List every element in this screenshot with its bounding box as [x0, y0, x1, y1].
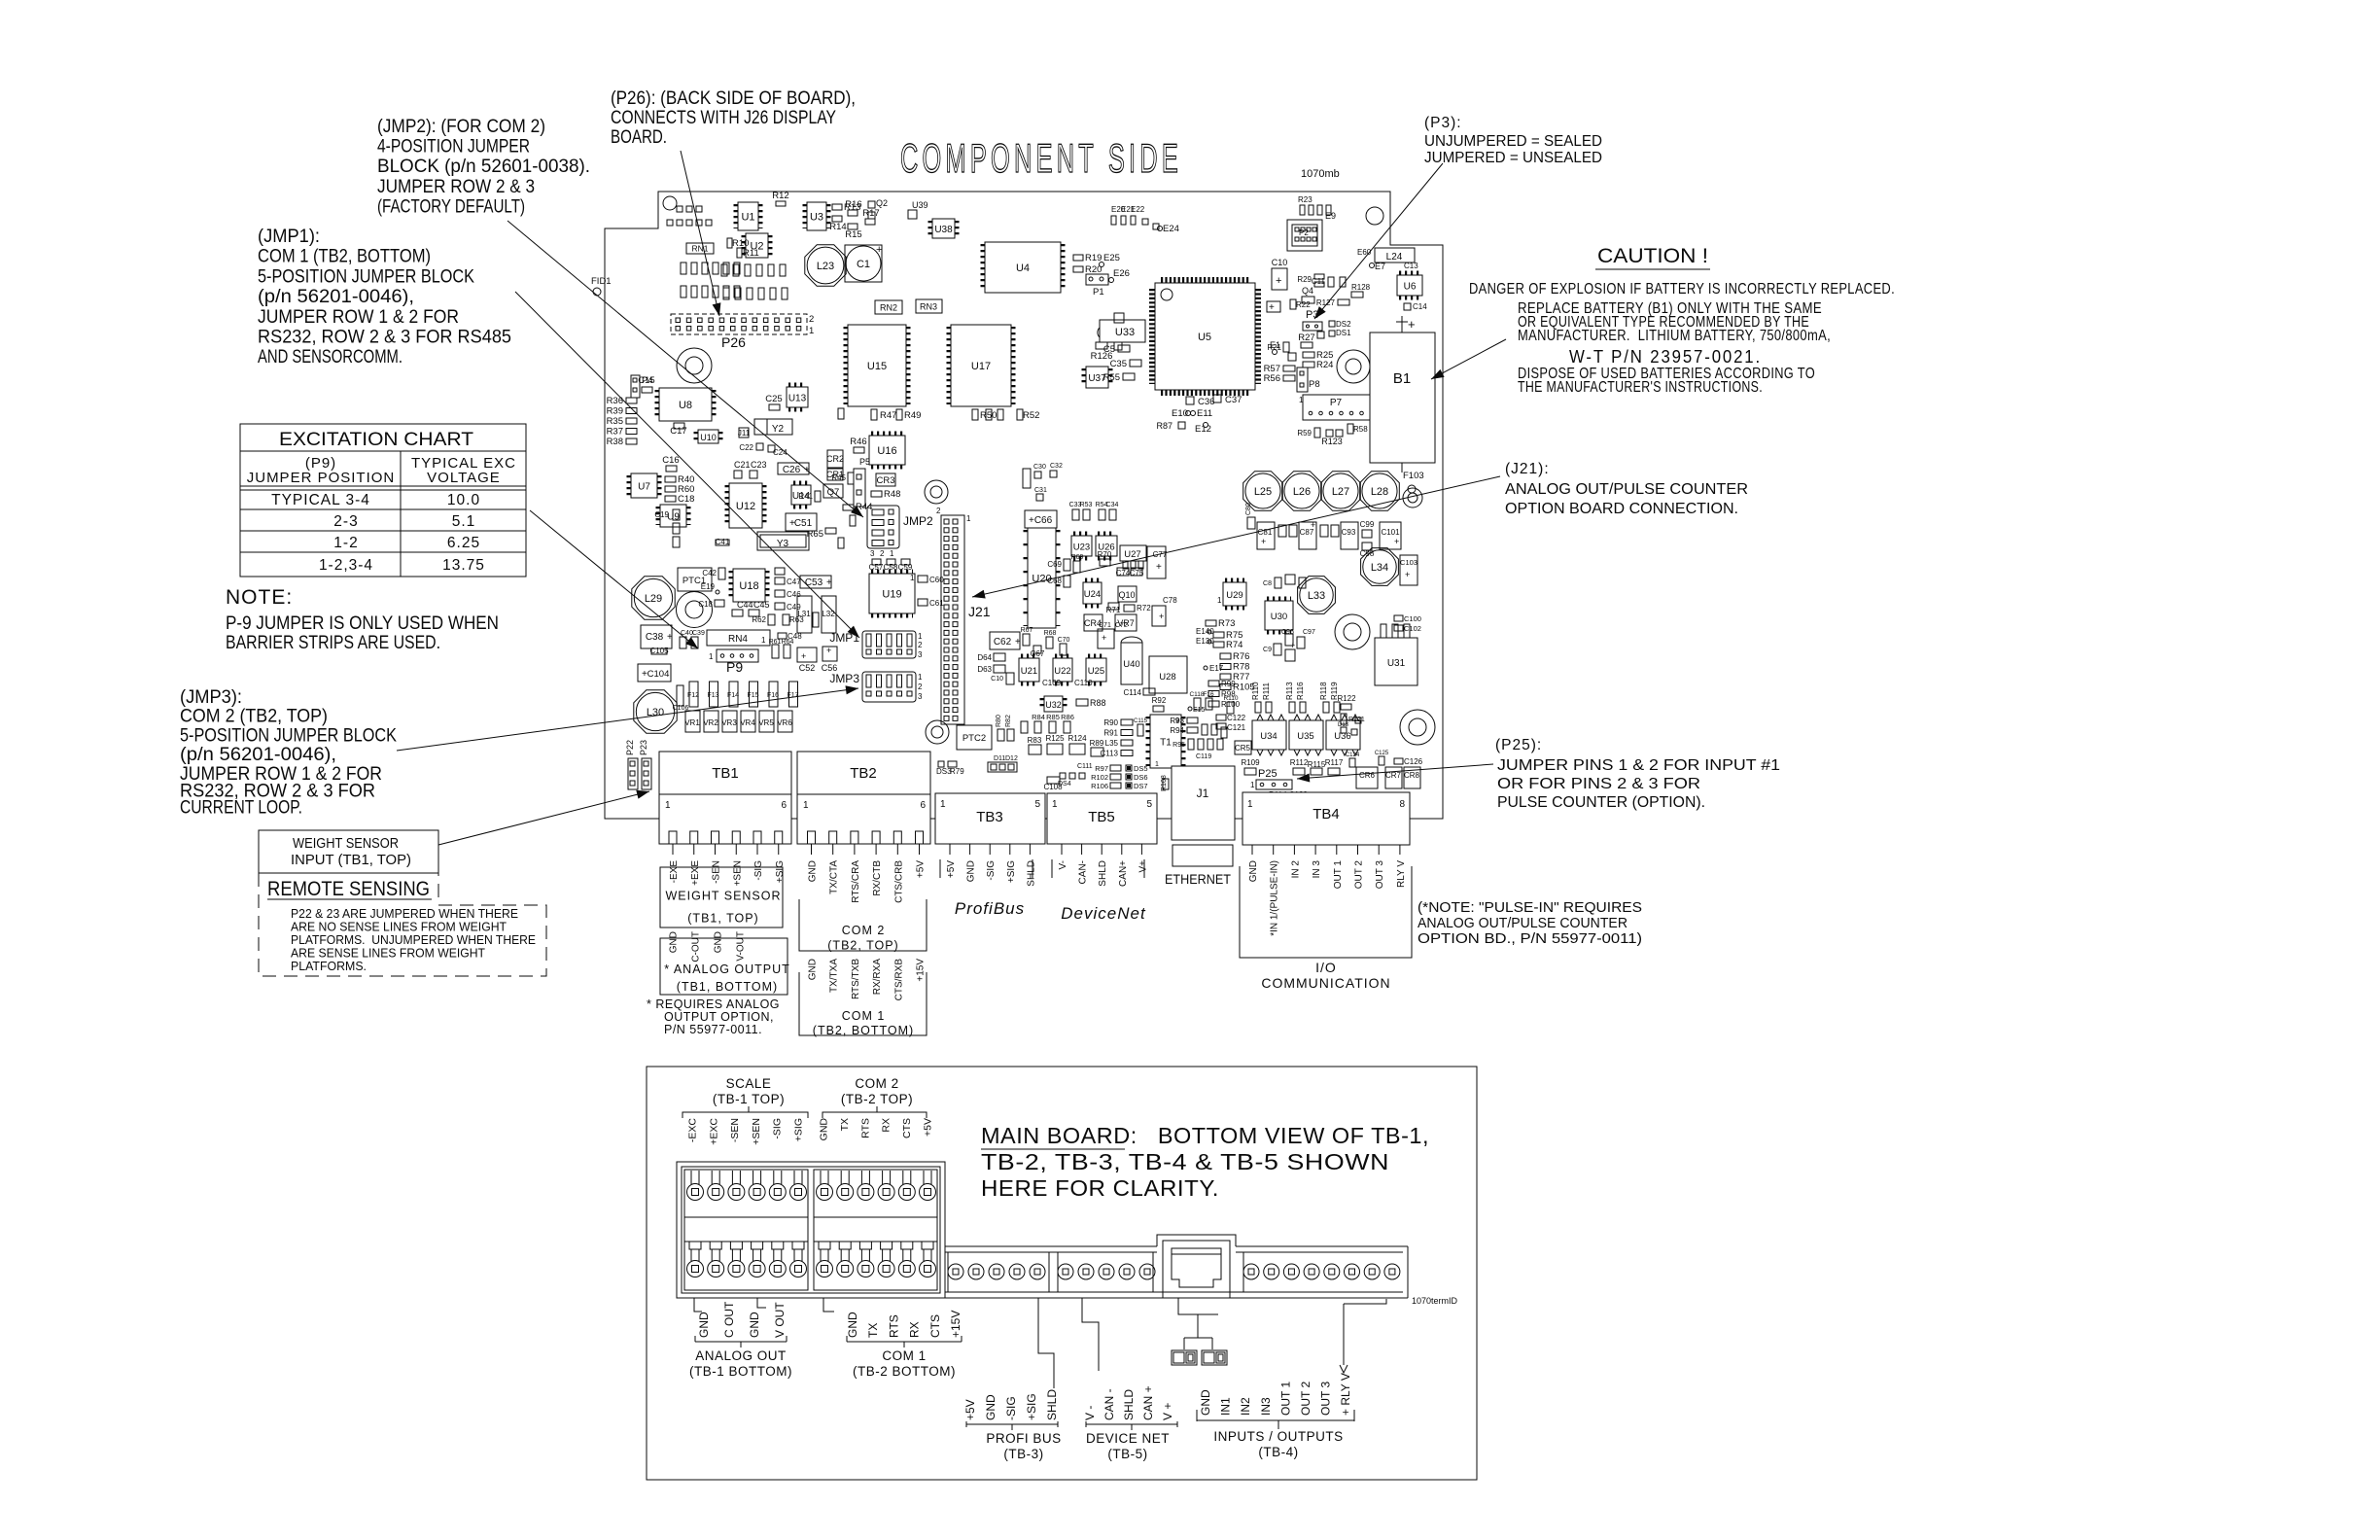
resistors R95 R103 R107 R104 C119	[1188, 739, 1194, 750]
capacitor C114	[1143, 688, 1155, 695]
svg-text:R102: R102	[1091, 773, 1108, 782]
transistor Q10	[1118, 586, 1137, 602]
svg-text:R14: R14	[829, 222, 846, 232]
svg-text:U1: U1	[741, 212, 754, 224]
capacitors C40 C39	[680, 637, 686, 648]
jumper P22	[628, 758, 638, 789]
svg-text:C44: C44	[737, 600, 753, 610]
resistor R48n	[838, 408, 844, 419]
svg-text:R37: R37	[607, 427, 623, 437]
capacitor C41	[716, 540, 729, 545]
svg-text:CTS: CTS	[928, 1314, 942, 1338]
bracket scale	[682, 1106, 808, 1118]
svg-text:E17: E17	[1209, 664, 1224, 673]
IC U3	[807, 202, 826, 230]
svg-text:OUT 2: OUT 2	[1299, 1382, 1312, 1416]
svg-text:TB1: TB1	[712, 765, 739, 782]
svg-text:PULSE COUNTER (OPTION).: PULSE COUNTER (OPTION).	[1497, 794, 1705, 811]
capacitor C53	[800, 576, 831, 588]
svg-text:C23: C23	[751, 460, 767, 470]
svg-text:R97: R97	[1095, 764, 1108, 773]
svg-text:R24: R24	[1316, 360, 1333, 370]
svg-text:F12: F12	[687, 692, 699, 699]
svg-text:ANALOG OUT: ANALOG OUT	[695, 1348, 787, 1363]
svg-text:GND: GND	[984, 1394, 997, 1420]
svg-text:C57: C57	[869, 563, 884, 572]
svg-text:PROFI BUS: PROFI BUS	[986, 1431, 1061, 1446]
leader line P26 annotation to P26	[681, 151, 719, 316]
svg-text:U24: U24	[1084, 589, 1101, 600]
analog output TB1 bottom bracket	[660, 938, 787, 995]
IC U29	[1223, 582, 1246, 606]
svg-text:5.1: 5.1	[452, 513, 476, 530]
svg-text:-EXC: -EXC	[687, 1118, 699, 1143]
IC U18	[733, 569, 765, 602]
svg-text:R86: R86	[1061, 713, 1074, 721]
svg-text:P2: P2	[1299, 228, 1309, 237]
svg-text:IN 3: IN 3	[1312, 860, 1322, 879]
resistor R17	[865, 219, 875, 225]
svg-text:OUT 3: OUT 3	[1319, 1382, 1333, 1416]
com1 wire stems	[823, 1298, 834, 1312]
jumper P4	[631, 375, 640, 398]
svg-text:U17: U17	[971, 361, 991, 372]
svg-text:1: 1	[1155, 761, 1159, 768]
svg-text:TX/CTA: TX/CTA	[829, 860, 840, 894]
svg-text:C51: C51	[794, 518, 813, 529]
IC U25	[1086, 658, 1106, 682]
svg-text:JMP3: JMP3	[829, 672, 859, 685]
svg-text:L28: L28	[1371, 486, 1388, 498]
svg-text:R19: R19	[1085, 253, 1102, 263]
svg-text:R56: R56	[1264, 373, 1280, 384]
jumper block JMP1	[862, 631, 916, 658]
svg-text:R127: R127	[1316, 298, 1336, 307]
svg-text:+: +	[1269, 302, 1275, 313]
inductor L33	[1298, 577, 1336, 614]
svg-text:R58: R58	[1353, 425, 1368, 434]
svg-text:R116: R116	[1296, 682, 1305, 700]
svg-text:-SEN: -SEN	[712, 860, 722, 884]
svg-text:SCALE: SCALE	[726, 1076, 772, 1091]
capacitor C35	[1130, 360, 1141, 367]
svg-text:FID1: FID1	[591, 276, 612, 287]
svg-text:I/O: I/O	[1315, 960, 1337, 975]
svg-text:R70: R70	[1098, 550, 1112, 559]
svg-text:U38: U38	[934, 225, 953, 235]
svg-text:13.75: 13.75	[442, 557, 485, 574]
svg-text:U34: U34	[1260, 731, 1277, 742]
resistor R67	[1023, 634, 1030, 646]
svg-text:R15: R15	[845, 229, 861, 240]
svg-text:CURRENT LOOP.: CURRENT LOOP.	[180, 798, 302, 819]
svg-text:R87: R87	[1156, 421, 1172, 431]
IC U30	[1265, 601, 1293, 630]
diode CR5	[1235, 741, 1251, 754]
svg-text:C-OUT: C-OUT	[691, 931, 702, 962]
svg-text:E26: E26	[1113, 268, 1130, 279]
capacitor C25	[769, 404, 780, 410]
leader line battery note to B1	[1431, 339, 1506, 379]
svg-text:+: +	[1159, 612, 1164, 621]
svg-text:5: 5	[1034, 799, 1040, 810]
resistors R61 R64	[772, 645, 779, 658]
svg-text:R113: R113	[1285, 682, 1294, 700]
jumper block JMP3	[862, 672, 916, 702]
svg-text:(TB-2 TOP): (TB-2 TOP)	[841, 1092, 913, 1106]
svg-text:RTS/TXB: RTS/TXB	[851, 959, 861, 999]
capacitors C21 C23	[734, 471, 742, 478]
resistor R70	[1100, 559, 1110, 566]
resistor R108	[1163, 779, 1169, 789]
transistor Q3	[1288, 353, 1296, 361]
svg-text:2: 2	[809, 314, 814, 325]
svg-text:C47: C47	[787, 577, 801, 586]
svg-text:P23: P23	[639, 740, 648, 755]
svg-text:VR2: VR2	[703, 718, 718, 727]
svg-text:OPTION BD., P/N 55977-0011): OPTION BD., P/N 55977-0011)	[1417, 931, 1642, 947]
svg-text:C119: C119	[1196, 753, 1211, 760]
svg-text:* ANALOG OUTPUT: * ANALOG OUTPUT	[664, 962, 790, 976]
inductor L34	[1361, 548, 1399, 586]
svg-text:+: +	[876, 244, 882, 256]
svg-text:THE MANUFACTURER'S INSTRUCTION: THE MANUFACTURER'S INSTRUCTIONS.	[1518, 379, 1763, 396]
svg-text:T1: T1	[1160, 738, 1172, 749]
resistor column R90 R91 L35 C113	[1121, 719, 1133, 725]
svg-text:C98: C98	[1360, 549, 1375, 558]
resistor R55	[1123, 373, 1135, 380]
svg-text:U29: U29	[1226, 590, 1242, 601]
svg-text:C110: C110	[1074, 679, 1093, 687]
svg-text:+15V: +15V	[949, 1311, 962, 1338]
svg-text:(P25):: (P25):	[1495, 737, 1542, 753]
svg-text:WEIGHT SENSOR: WEIGHT SENSOR	[665, 890, 781, 903]
IC U23	[1071, 536, 1092, 556]
svg-text:(P26): (BACK SIDE OF BOARD),: (P26): (BACK SIDE OF BOARD),	[611, 88, 856, 109]
svg-text:R128: R128	[1351, 283, 1371, 292]
svg-text:1070termID: 1070termID	[1412, 1296, 1458, 1306]
diodes D15 D13 D14	[1355, 717, 1361, 723]
connector J11	[739, 428, 749, 437]
resistor R24	[1303, 362, 1314, 367]
svg-text:U15: U15	[867, 361, 887, 372]
svg-text:GND: GND	[1199, 1389, 1212, 1416]
svg-text:R53: R53	[1080, 502, 1093, 508]
svg-text:1: 1	[1299, 396, 1304, 404]
svg-text:R99: R99	[1221, 680, 1236, 688]
svg-text:R48: R48	[884, 489, 900, 500]
svg-text:R123: R123	[1321, 437, 1343, 446]
ethernet connector J1	[1172, 766, 1235, 840]
leader line excitation chart to P9	[530, 510, 698, 648]
svg-text:C18: C18	[678, 494, 694, 505]
svg-text:Y3: Y3	[777, 539, 789, 549]
svg-text:F16: F16	[1203, 691, 1214, 698]
svg-text:C101: C101	[1381, 528, 1400, 537]
capacitor C10	[1272, 268, 1287, 290]
svg-text:R94: R94	[1170, 726, 1184, 735]
capacitor C80	[775, 568, 785, 575]
capacitor row L13-L22	[681, 262, 686, 274]
svg-text:+SIG: +SIG	[793, 1118, 805, 1141]
svg-text:(TB-4): (TB-4)	[1258, 1445, 1298, 1459]
svg-text:C100: C100	[1404, 614, 1421, 623]
IC U1	[738, 202, 758, 230]
svg-text:C97: C97	[1303, 629, 1315, 636]
svg-text:R106: R106	[1091, 782, 1108, 790]
svg-text:CONNECTS WITH J26 DISPLAY: CONNECTS WITH J26 DISPLAY	[611, 108, 836, 128]
svg-text:5-POSITION JUMPER BLOCK: 5-POSITION JUMPER BLOCK	[258, 266, 474, 287]
inductor L29	[632, 577, 675, 619]
svg-text:TX: TX	[866, 1323, 880, 1338]
svg-text:R52: R52	[1023, 410, 1039, 421]
svg-text:U4: U4	[1016, 262, 1030, 274]
svg-text:Q2: Q2	[876, 198, 888, 208]
devicenet bracket	[1086, 1421, 1177, 1430]
svg-text:GND: GND	[669, 931, 680, 953]
svg-text:R46: R46	[850, 437, 866, 447]
capacitor C38	[641, 625, 672, 648]
capacitors C69 C68	[1064, 559, 1070, 571]
analog out wire stems	[694, 1298, 766, 1312]
svg-text:C18: C18	[698, 600, 713, 609]
svg-text:8: 8	[1399, 799, 1405, 810]
svg-text:R17: R17	[862, 208, 879, 219]
resistor R44	[843, 505, 854, 510]
svg-text:GND: GND	[748, 1312, 761, 1338]
IC U40	[1121, 643, 1142, 684]
svg-text:R69: R69	[1071, 554, 1084, 561]
jumper block JMP2	[867, 506, 899, 548]
svg-text:OUT 3: OUT 3	[1375, 860, 1385, 890]
svg-text:RTS/CRA: RTS/CRA	[851, 860, 861, 903]
diodes CR6 CR7 CR8	[1356, 767, 1378, 788]
IC U21	[1019, 658, 1039, 682]
svg-text:U31: U31	[1387, 658, 1406, 669]
svg-text:L31: L31	[797, 610, 811, 618]
svg-text:ARE NO SENSE LINES FROM WEIGHT: ARE NO SENSE LINES FROM WEIGHT	[291, 921, 507, 934]
capacitor C42	[718, 568, 725, 579]
svg-text:L24: L24	[1386, 252, 1403, 262]
resistor R89	[1091, 748, 1103, 756]
TB2 pin wires and labels	[811, 844, 813, 855]
svg-text:6: 6	[920, 800, 926, 811]
svg-text:CAN+: CAN+	[1118, 860, 1129, 887]
svg-text:IN 2: IN 2	[1290, 860, 1301, 879]
resistor R50	[972, 409, 978, 420]
svg-text:+5V: +5V	[946, 860, 957, 878]
svg-text:TX/TXA: TX/TXA	[829, 959, 840, 993]
svg-text:(JMP3):: (JMP3):	[180, 687, 242, 708]
mounting hole B	[677, 592, 713, 628]
svg-text:CAUTION !: CAUTION !	[1597, 245, 1708, 267]
svg-text:+EXC: +EXC	[708, 1118, 719, 1145]
svg-text:COM 1 (TB2, BOTTOM): COM 1 (TB2, BOTTOM)	[258, 247, 431, 267]
svg-text:CR8: CR8	[1404, 771, 1420, 780]
svg-text:CTS: CTS	[901, 1118, 913, 1138]
svg-text:TX: TX	[839, 1118, 851, 1131]
resistor R71	[1108, 603, 1119, 610]
crystal Y2	[754, 419, 792, 435]
thermistor PTC2	[957, 725, 992, 750]
svg-text:DS4: DS4	[1058, 781, 1071, 787]
svg-text:1: 1	[966, 514, 971, 523]
svg-text:MAIN BOARD: BOTTOM VIEW OF T: MAIN BOARD: BOTTOM VIEW OF TB-1,	[981, 1123, 1429, 1148]
svg-text:BOARD.: BOARD.	[611, 127, 667, 148]
svg-text:GND: GND	[819, 1118, 830, 1141]
svg-text:1: 1	[918, 632, 923, 641]
connector P1	[1086, 274, 1108, 285]
svg-text:GND: GND	[714, 931, 724, 953]
svg-text:(TB2, BOTTOM): (TB2, BOTTOM)	[813, 1024, 914, 1037]
resistor R45	[848, 472, 854, 484]
svg-text:L25: L25	[1254, 486, 1272, 498]
svg-text:-SIG: -SIG	[986, 860, 997, 881]
svg-text:RTS: RTS	[887, 1314, 900, 1338]
svg-text:SHLD: SHLD	[1045, 1389, 1059, 1420]
svg-text:RLY V: RLY V	[1396, 860, 1407, 888]
mounting hole D	[926, 720, 949, 744]
svg-text:R125: R125	[1045, 734, 1065, 743]
svg-text:+SIG: +SIG	[1025, 1393, 1038, 1420]
svg-text:C60: C60	[929, 576, 944, 584]
transistor Q7	[823, 484, 843, 498]
svg-text:CAN +: CAN +	[1141, 1385, 1155, 1420]
resistor R13	[832, 204, 842, 210]
resistor R46	[854, 447, 864, 453]
svg-text:P7: P7	[1330, 398, 1343, 408]
svg-text:RN4: RN4	[728, 634, 748, 645]
svg-text:C32: C32	[1050, 463, 1063, 470]
capacitors C100 C102	[1394, 615, 1403, 621]
svg-text:GND: GND	[697, 1312, 711, 1338]
IC U39	[908, 210, 917, 219]
svg-text:L35: L35	[1105, 739, 1119, 748]
svg-text:(p/n 56201-0046),: (p/n 56201-0046),	[180, 745, 336, 765]
resistor R21	[1283, 342, 1289, 352]
transistor Q2	[868, 201, 875, 208]
svg-text:C17: C17	[670, 426, 686, 437]
terminal block TB3	[935, 793, 1045, 844]
svg-text:+5V: +5V	[963, 1399, 977, 1420]
svg-text:+: +	[1029, 515, 1034, 526]
capacitor C60	[918, 576, 927, 582]
svg-text:C99: C99	[1360, 520, 1375, 529]
svg-text:+SEN: +SEN	[751, 1118, 762, 1145]
connector J21	[941, 515, 964, 724]
IC U26	[1096, 536, 1117, 556]
svg-text:RTS: RTS	[859, 1118, 871, 1138]
svg-text:V+: V+	[1137, 860, 1148, 873]
svg-text:C46: C46	[787, 590, 801, 599]
leader line P3 annotation to P3 jumper	[1314, 163, 1443, 319]
svg-text:DANGER OF EXPLOSION IF BATTERY: DANGER OF EXPLOSION IF BATTERY IS INCORR…	[1469, 281, 1895, 297]
board outline	[605, 192, 1443, 819]
svg-text:DS2: DS2	[1336, 320, 1351, 329]
svg-text:U3: U3	[810, 212, 823, 224]
resistor R12	[776, 201, 786, 206]
svg-text:Y2: Y2	[772, 424, 785, 435]
IC U28	[1149, 656, 1187, 693]
svg-text:V OUT: V OUT	[773, 1302, 787, 1338]
svg-text:OR FOR PINS 2 & 3 FOR: OR FOR PINS 2 & 3 FOR	[1497, 776, 1700, 792]
IC U8	[659, 388, 712, 421]
svg-text:DS5: DS5	[1134, 764, 1148, 773]
svg-text:C66: C66	[1034, 515, 1053, 526]
resistors R80 R82	[997, 729, 1004, 741]
resistor R22	[1290, 299, 1296, 309]
diode CR4	[1084, 614, 1102, 631]
diode CR3	[876, 473, 895, 486]
svg-text:Q4: Q4	[1302, 286, 1313, 296]
resistor R128	[1351, 292, 1363, 297]
svg-text:C115: C115	[1134, 718, 1148, 724]
transformer T1	[1150, 715, 1181, 768]
capacitor C26	[778, 463, 809, 474]
resistor R56	[1283, 375, 1295, 381]
svg-text:ProfiBus: ProfiBus	[955, 899, 1025, 918]
svg-text:R80: R80	[996, 715, 1002, 727]
svg-text:R78: R78	[1233, 662, 1249, 673]
svg-text:D11: D11	[994, 755, 1005, 762]
resistor R41	[815, 491, 821, 502]
IC U9	[660, 505, 686, 527]
svg-text:10.0: 10.0	[447, 492, 480, 508]
svg-text:R39: R39	[607, 406, 623, 417]
svg-text:(JMP2): (FOR COM 2): (JMP2): (FOR COM 2)	[377, 117, 545, 137]
resistor R83	[1029, 745, 1041, 754]
svg-text:U12: U12	[736, 501, 755, 512]
capacitor C107	[1006, 673, 1014, 684]
devicenet wire	[1082, 1298, 1099, 1371]
svg-text:W-T P/N 23957-0021.: W-T P/N 23957-0021.	[1569, 347, 1762, 367]
svg-text:U30: U30	[1271, 612, 1287, 622]
svg-text:GND: GND	[846, 1312, 859, 1338]
svg-text:1: 1	[890, 549, 894, 558]
IC U38	[932, 219, 955, 238]
svg-text:D64: D64	[977, 653, 992, 662]
svg-text:R76: R76	[1233, 651, 1249, 662]
svg-text:TB5: TB5	[1088, 809, 1115, 825]
svg-text:R59: R59	[1297, 429, 1312, 437]
svg-text:SHLD: SHLD	[1026, 860, 1036, 887]
svg-text:P9: P9	[726, 659, 743, 675]
capacitor C14	[1404, 303, 1411, 310]
profibus wire	[1038, 1298, 1054, 1388]
ICs U34 U35 U36	[1252, 720, 1286, 750]
IC U10	[698, 430, 718, 443]
TB1 bottom block terminals	[684, 1170, 808, 1290]
capacitors C30 C32 C31	[1023, 469, 1031, 488]
svg-text:(TB2, TOP): (TB2, TOP)	[827, 939, 898, 953]
svg-text:(TB-3): (TB-3)	[1003, 1447, 1043, 1461]
svg-text:5-POSITION JUMPER BLOCK: 5-POSITION JUMPER BLOCK	[180, 725, 397, 746]
svg-text:C62: C62	[994, 637, 1012, 647]
IC U13	[787, 387, 808, 407]
resistor column R23 R28 R33 E9	[1300, 205, 1305, 215]
svg-text:C10: C10	[991, 676, 1003, 682]
capacitor C52	[797, 647, 817, 662]
connector P7	[1303, 395, 1370, 420]
svg-text:C109: C109	[1042, 679, 1062, 687]
resistors R97 R102 R106 and LEDs DS5 DS6 DS7	[1110, 765, 1121, 771]
svg-text:2: 2	[936, 507, 941, 515]
svg-text:-SEN: -SEN	[729, 1118, 741, 1142]
capacitor C29	[997, 409, 1003, 420]
svg-text:R88: R88	[1090, 698, 1106, 708]
svg-text:C72: C72	[1115, 622, 1128, 629]
svg-text:BARRIER STRIPS ARE USED.: BARRIER STRIPS ARE USED.	[226, 633, 440, 653]
